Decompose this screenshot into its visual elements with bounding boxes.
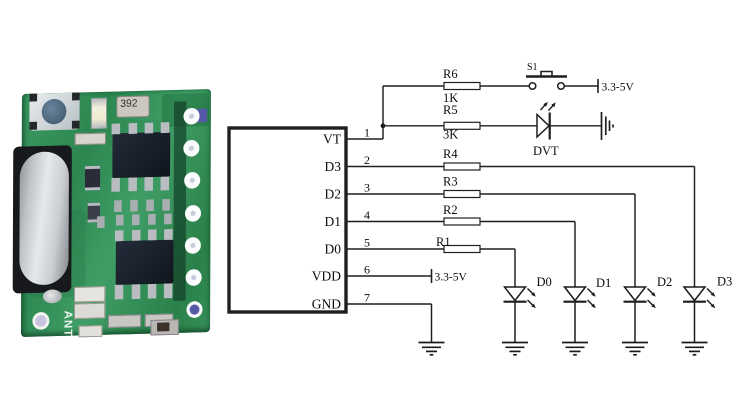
svg-text:R6: R6 — [443, 67, 458, 81]
svg-text:VDD: VDD — [312, 269, 341, 284]
svg-text:7: 7 — [364, 291, 370, 305]
svg-text:3: 3 — [364, 181, 370, 195]
svg-text:R1: R1 — [436, 235, 451, 249]
svg-text:D0: D0 — [537, 275, 552, 289]
svg-text:D3: D3 — [325, 159, 342, 174]
svg-text:R2: R2 — [443, 203, 458, 217]
svg-text:VT: VT — [323, 132, 342, 147]
svg-text:5: 5 — [364, 236, 370, 250]
svg-text:D2: D2 — [657, 275, 672, 289]
svg-text:R5: R5 — [443, 103, 458, 117]
svg-text:R3: R3 — [443, 175, 458, 189]
svg-text:2: 2 — [364, 153, 370, 167]
svg-text:D1: D1 — [325, 214, 342, 229]
svg-text:D0: D0 — [325, 242, 342, 257]
svg-text:DVT: DVT — [533, 144, 559, 158]
svg-text:D3: D3 — [717, 275, 732, 289]
svg-text:3.3-5V: 3.3-5V — [602, 82, 635, 94]
svg-text:R4: R4 — [443, 147, 458, 161]
svg-text:6: 6 — [364, 263, 370, 277]
svg-text:GND: GND — [312, 297, 341, 312]
svg-text:3.3-5V: 3.3-5V — [435, 272, 468, 284]
svg-text:D2: D2 — [325, 187, 342, 202]
svg-text:D1: D1 — [596, 276, 611, 290]
svg-text:S1: S1 — [527, 62, 538, 73]
svg-text:4: 4 — [364, 208, 370, 222]
svg-text:3K: 3K — [443, 128, 458, 142]
svg-text:1: 1 — [364, 126, 370, 140]
